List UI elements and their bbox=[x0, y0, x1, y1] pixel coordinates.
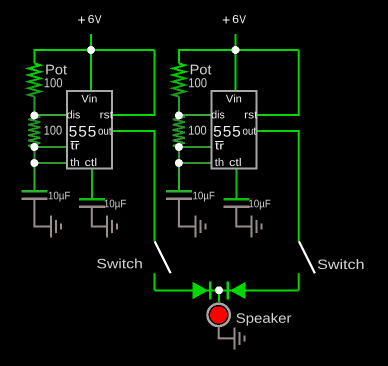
diode D2 cathode bar bbox=[227, 281, 229, 299]
node C1 threshold bbox=[30, 159, 38, 167]
label U1 pin Vin bbox=[81, 94, 96, 102]
switch S2 lower lead bbox=[298, 273, 300, 290]
ground G1 lead bbox=[34, 200, 50, 227]
wire V2 feed bbox=[235, 34, 237, 50]
potentiometer R2 upper zigzag bbox=[173, 64, 185, 97]
capacitor C2 bottom plate bbox=[79, 205, 105, 208]
wire th pin 2 bbox=[179, 162, 211, 164]
wire rst pin 2 bbox=[258, 50, 299, 115]
label U1 pin th bbox=[70, 158, 79, 166]
node A1 wiper bbox=[30, 112, 38, 120]
switch S1 lever bbox=[155, 241, 171, 273]
ground G5 bars bbox=[235, 327, 245, 349]
switch S1 lower lead bbox=[154, 273, 156, 290]
diode D1 triangle bbox=[193, 282, 209, 299]
label R1 name Pot bbox=[46, 65, 67, 75]
ground G3 lead bbox=[179, 200, 195, 227]
wire speaker stub bbox=[218, 291, 220, 302]
op 555 chip U1 box bbox=[67, 91, 112, 168]
wire dis pin 1 bbox=[34, 114, 66, 116]
ground G3 bars bbox=[196, 216, 206, 238]
wire R2 body lead bbox=[178, 97, 180, 113]
label C2b 10uF bbox=[249, 200, 270, 210]
capacitor C4 top plate bbox=[223, 198, 249, 201]
label R2 lower value 100 bbox=[189, 126, 206, 135]
label C1a 10uF bbox=[49, 192, 70, 202]
label V1 +6V bbox=[78, 15, 101, 24]
capacitor C4 bottom plate bbox=[223, 205, 249, 208]
capacitor C1 top plate bbox=[21, 190, 47, 193]
wire th pin 1 bbox=[34, 162, 66, 164]
wire node2-node3 link 1 bbox=[33, 147, 35, 163]
capacitor C2 top plate bbox=[79, 198, 105, 201]
label R2 upper value 100 bbox=[189, 78, 207, 87]
wire R1 body lead bbox=[33, 97, 35, 113]
label U2 555 bbox=[214, 126, 240, 137]
label U1 pin out bbox=[98, 127, 111, 134]
ground G1 bars bbox=[51, 216, 61, 238]
label U2 pin th bbox=[215, 158, 224, 166]
speaker SP1 red core bbox=[210, 306, 227, 323]
op 555 chip U2 box bbox=[212, 91, 257, 168]
label U1 pin ctl bbox=[85, 158, 96, 166]
label U2 pin ctl bbox=[230, 158, 241, 166]
wire tr pin 2 bbox=[179, 146, 211, 148]
label U1 555 bbox=[69, 126, 95, 137]
label U1 pin rst bbox=[100, 111, 113, 118]
node C2 threshold bbox=[175, 159, 183, 167]
wire rst pin 1 bbox=[113, 50, 155, 115]
label C1b 10uF bbox=[105, 200, 126, 210]
label R1 lower value 100 bbox=[45, 126, 62, 135]
potentiometer R1 upper zigzag bbox=[28, 64, 40, 97]
wire pot R2 top lead bbox=[178, 50, 180, 64]
diode D1 cathode bar bbox=[209, 281, 211, 299]
node V1 rail junction bbox=[87, 46, 95, 54]
label U1 tr overline bbox=[70, 141, 79, 143]
ground G4 bars bbox=[252, 216, 262, 238]
label C2a 10uF bbox=[193, 192, 214, 202]
speaker SP1 ring bbox=[207, 304, 229, 326]
node A2 wiper bbox=[175, 112, 183, 120]
label U2 pin dis bbox=[212, 110, 225, 118]
wire top rail circuit 2 bbox=[179, 50, 299, 51]
label S2 Switch bbox=[318, 259, 364, 269]
wire bottom bus bbox=[155, 289, 299, 291]
label U2 pin tr bbox=[215, 142, 224, 149]
ground G4 lead bbox=[236, 208, 250, 227]
wire top rail circuit 1 bbox=[34, 50, 154, 51]
wire V1 feed bbox=[90, 34, 92, 50]
label R1 upper value 100 bbox=[45, 78, 63, 87]
node D speaker junction bbox=[215, 286, 223, 294]
wire out pin 1 bbox=[113, 131, 155, 241]
wire tr pin 1 bbox=[34, 146, 66, 148]
wire Vin pin 1 bbox=[90, 51, 92, 90]
label R2 name Pot bbox=[191, 65, 212, 75]
ground G2 bars bbox=[107, 216, 117, 238]
label U1 pin tr bbox=[71, 142, 80, 149]
diode D2 triangle bbox=[230, 282, 246, 299]
capacitor C1 bottom plate bbox=[21, 197, 47, 200]
wire out pin 2 bbox=[258, 131, 299, 241]
wire cap C3 stub bbox=[178, 163, 180, 190]
wire ctl cap C2 stub bbox=[91, 169, 93, 198]
capacitor C3 top plate bbox=[166, 190, 192, 193]
label U2 pin Vin bbox=[226, 94, 241, 102]
wire cap C1 stub bbox=[33, 163, 35, 190]
ground G2 lead bbox=[92, 208, 106, 227]
capacitor C3 bottom plate bbox=[166, 197, 192, 200]
label U2 pin out bbox=[243, 127, 256, 134]
wire Vin pin 2 bbox=[235, 51, 237, 90]
label S1 Switch bbox=[97, 258, 142, 268]
wire node2-node3 link 2 bbox=[178, 147, 180, 163]
label U2 tr overline bbox=[215, 141, 224, 143]
ground G5 lead bbox=[219, 326, 234, 338]
node B2 trigger bbox=[175, 143, 183, 151]
potentiometer R2 lower zigzag bbox=[173, 116, 185, 148]
label U2 pin rst bbox=[245, 111, 258, 118]
switch S2 lever bbox=[299, 241, 315, 273]
label SP1 Speaker bbox=[236, 313, 291, 326]
potentiometer R1 lower zigzag bbox=[28, 116, 40, 148]
label V2 +6V bbox=[223, 15, 246, 24]
wire dis pin 2 bbox=[179, 114, 211, 116]
wire ctl cap C4 stub bbox=[235, 169, 237, 198]
node B1 trigger bbox=[30, 143, 38, 151]
wire pot R1 top lead bbox=[33, 50, 35, 64]
label U1 pin dis bbox=[67, 110, 80, 118]
node V2 rail junction bbox=[232, 46, 240, 54]
